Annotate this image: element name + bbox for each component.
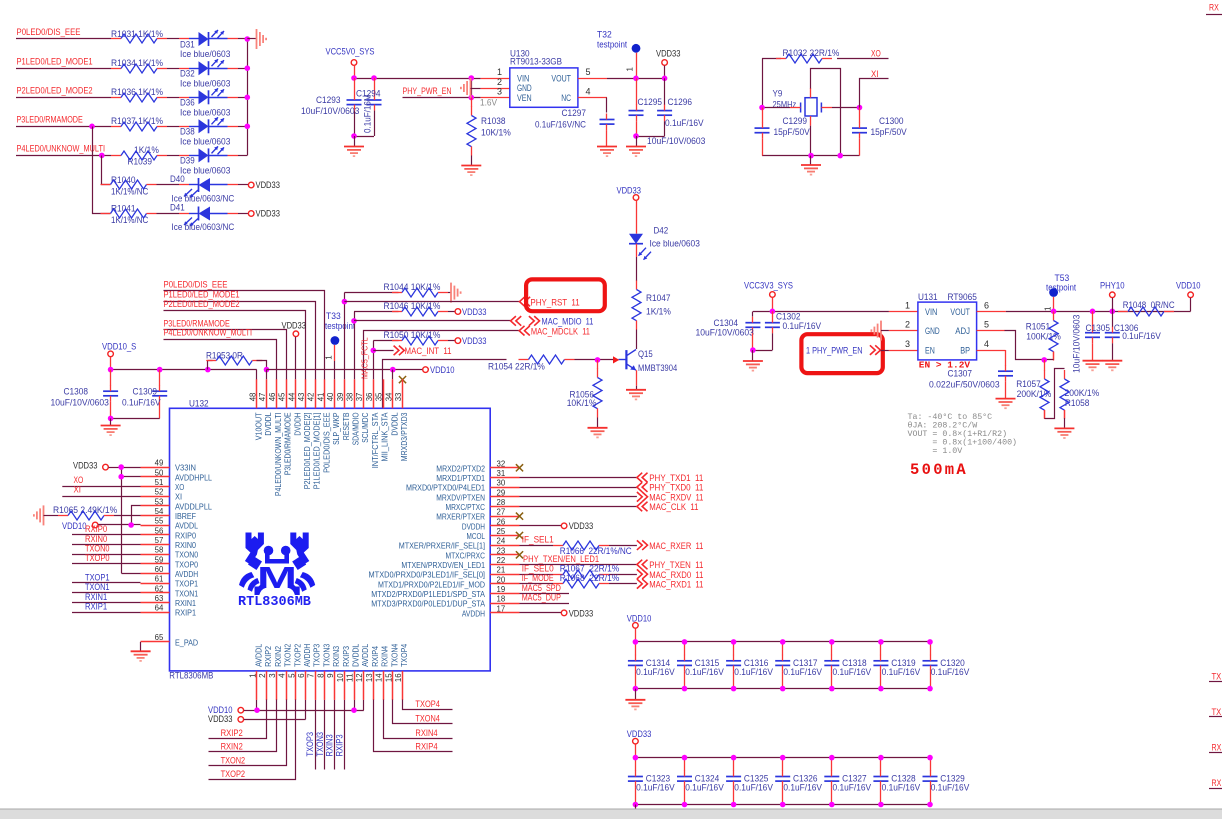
svg-text:1: 1 bbox=[1043, 306, 1052, 311]
wire E_PAD to ground bbox=[140, 642, 142, 651]
svg-text:RXIN2: RXIN2 bbox=[221, 742, 243, 752]
svg-text:TXON4: TXON4 bbox=[415, 714, 440, 724]
svg-text:RXIP4: RXIP4 bbox=[415, 742, 437, 752]
wire TXOP4 to pin 16 bbox=[403, 700, 453, 710]
net label PHY_PWR_EN bbox=[403, 86, 452, 96]
svg-text:VIN: VIN bbox=[925, 307, 937, 317]
wire P4LED0 to R1040 bbox=[102, 156, 111, 185]
svg-text:RXIP3: RXIP3 bbox=[341, 646, 351, 667]
svg-text:AVDDH: AVDDH bbox=[175, 569, 198, 579]
wire VDD33 bank bottom rail bbox=[635, 804, 930, 806]
resistor R1058 200K/1% bbox=[1060, 370, 1099, 419]
junction C1325 bottom bbox=[731, 802, 737, 808]
svg-text:P2LED0/LED_MODE2: P2LED0/LED_MODE2 bbox=[164, 299, 240, 309]
svg-text:49: 49 bbox=[155, 459, 164, 468]
svg-text:DVDDH: DVDDH bbox=[462, 521, 485, 531]
wire pin21 to R1067 bbox=[520, 574, 554, 576]
svg-text:ADJ: ADJ bbox=[955, 326, 970, 336]
junction RESETB bbox=[342, 299, 348, 305]
wire P4LED0/UNKNOW_MULTI to pin 46 bbox=[164, 340, 277, 380]
power VDD10 at pin 55 bbox=[62, 521, 131, 531]
wire RESETB up bbox=[344, 293, 346, 380]
svg-text:D38: D38 bbox=[180, 127, 195, 137]
junction C1326 top bbox=[780, 755, 786, 761]
svg-text:TXOP3: TXOP3 bbox=[312, 644, 322, 667]
svg-text:RXIP1: RXIP1 bbox=[85, 601, 107, 611]
svg-text:5: 5 bbox=[287, 673, 296, 678]
wire pin28 MAC_CLK bbox=[520, 506, 637, 508]
ground under C1306 bbox=[1102, 361, 1122, 371]
svg-text:MAC5_DUP: MAC5_DUP bbox=[522, 593, 561, 603]
net label RX right 2 bbox=[1209, 778, 1222, 789]
svg-text:VDD10: VDD10 bbox=[430, 365, 455, 375]
wire P3LED0/RMAMODE to R1037 bbox=[16, 126, 111, 128]
wire INT/FCTRL up bbox=[373, 341, 375, 380]
svg-text:VDD33: VDD33 bbox=[569, 521, 594, 531]
svg-text:SDA/MDIO: SDA/MDIO bbox=[351, 412, 361, 445]
wire pin22 PHY_TXEN bbox=[520, 564, 637, 566]
svg-text:XI: XI bbox=[871, 69, 879, 79]
net label IF_MODE bbox=[522, 573, 554, 583]
capacitor C1295 bbox=[629, 78, 706, 146]
net label RXIP3 bbox=[334, 734, 344, 756]
wire pin19 MAC5_SPD bbox=[520, 593, 570, 595]
capacitor C1315 0.1uF/16V bbox=[677, 642, 724, 689]
power VDD33 at R1050 bbox=[455, 336, 486, 346]
svg-text:D36: D36 bbox=[180, 98, 195, 108]
svg-text:0.1uF/16V: 0.1uF/16V bbox=[1122, 331, 1161, 341]
svg-text:MRXD1/PTXD1: MRXD1/PTXD1 bbox=[436, 473, 485, 483]
wire VIN rail to VEN bbox=[471, 78, 473, 98]
svg-text:MRXDV/PTXEN: MRXDV/PTXEN bbox=[436, 492, 485, 502]
svg-text:MAC_RXD1 11: MAC_RXD1 11 bbox=[649, 579, 703, 589]
port PHY_TXEN 11 bbox=[637, 560, 704, 570]
svg-text:5: 5 bbox=[984, 320, 989, 330]
svg-text:57: 57 bbox=[155, 536, 164, 545]
svg-text:P1LED0/LED_MODE1: P1LED0/LED_MODE1 bbox=[17, 56, 93, 66]
ground U130 GND pin (rotated) bbox=[461, 78, 471, 98]
svg-text:C1307: C1307 bbox=[948, 368, 973, 378]
svg-text:0.1uF/16V/NC: 0.1uF/16V/NC bbox=[535, 119, 586, 129]
power VDD33 at U130 out bbox=[656, 49, 681, 79]
wire C1308 ground stub bbox=[110, 418, 112, 425]
svg-text:RT9013-33GB: RT9013-33GB bbox=[510, 57, 562, 67]
svg-text:TXOP4: TXOP4 bbox=[399, 644, 409, 667]
junction T53/R1051 bbox=[1051, 309, 1057, 315]
svg-text:C1308: C1308 bbox=[64, 387, 89, 397]
svg-text:7: 7 bbox=[307, 673, 316, 678]
capacitor C1317 0.1uF/16V bbox=[775, 642, 822, 689]
power VDD10 at rail end bbox=[423, 365, 455, 375]
svg-text:0.1uF/16V: 0.1uF/16V bbox=[636, 783, 675, 793]
svg-text:MAC_RXDV 11: MAC_RXDV 11 bbox=[649, 492, 703, 502]
svg-text:4: 4 bbox=[984, 339, 989, 349]
svg-text:R1044 10K/1%: R1044 10K/1% bbox=[384, 282, 441, 292]
svg-text:VDD10: VDD10 bbox=[62, 521, 87, 531]
svg-text:10uF/10V/0603: 10uF/10V/0603 bbox=[51, 397, 109, 407]
wire VDD10_S rail bbox=[111, 370, 257, 380]
capacitor C1314 0.1uF/16V bbox=[628, 642, 675, 689]
svg-text:AVDDL: AVDDL bbox=[175, 521, 198, 531]
svg-text:TX: TX bbox=[1212, 672, 1222, 682]
wire U131 GND bbox=[881, 330, 918, 332]
svg-text:R1057: R1057 bbox=[1016, 379, 1041, 389]
resistor R1054 22R/1% bbox=[488, 355, 575, 371]
svg-text:VIN: VIN bbox=[517, 73, 529, 83]
power VDD33 at pin 17 bbox=[561, 608, 593, 618]
svg-text:Ice blue/0603/NC: Ice blue/0603/NC bbox=[172, 222, 235, 232]
svg-text:AVDDHPLL: AVDDHPLL bbox=[175, 472, 212, 482]
junction crystal gnd 2 bbox=[837, 153, 843, 159]
svg-text:TXON4: TXON4 bbox=[389, 644, 399, 667]
svg-text:θJA: 208.2°C/W: θJA: 208.2°C/W bbox=[908, 421, 978, 431]
resistor R1031 1K/1% bbox=[111, 29, 167, 43]
svg-text:53: 53 bbox=[155, 497, 164, 506]
junction C1320 top bbox=[927, 639, 933, 645]
wire RESETB to PHY_RST bbox=[344, 301, 519, 303]
svg-text:testpoint: testpoint bbox=[597, 39, 628, 49]
junction C1318 top bbox=[829, 639, 835, 645]
svg-text:VCC3V3_SYS: VCC3V3_SYS bbox=[744, 280, 793, 290]
junction C1316 bottom bbox=[731, 686, 737, 692]
wire TXON1 bbox=[72, 592, 141, 594]
svg-text:C1299: C1299 bbox=[783, 116, 808, 126]
svg-text:RXIN4: RXIN4 bbox=[380, 646, 390, 667]
junction C1319 top bbox=[878, 639, 884, 645]
chip U132 right pins 32-17 bbox=[369, 459, 520, 618]
wire crystal ground rail bbox=[762, 155, 860, 157]
highlight box PHY_RST bbox=[526, 279, 605, 311]
net label P4LED0/UNKNOW_MULTI bbox=[17, 144, 106, 154]
svg-text:M: M bbox=[257, 560, 297, 595]
wire P0LED0/DIS_EEE to R1031 bbox=[16, 38, 111, 40]
svg-text:0.1uF/16V: 0.1uF/16V bbox=[882, 783, 921, 793]
wire VCC3V3 rail bbox=[753, 311, 918, 313]
power VDD10 bottom left bbox=[208, 705, 257, 715]
svg-text:RXIP2: RXIP2 bbox=[263, 646, 273, 667]
capacitor C1304 10uF/10V/0603 bbox=[696, 312, 761, 351]
svg-text:1: 1 bbox=[626, 67, 635, 72]
wire TXON0 bbox=[72, 554, 141, 556]
wire VOUT to VDD33 node bbox=[578, 78, 665, 80]
no-connect pin 25 bbox=[516, 532, 523, 539]
svg-text:EN: EN bbox=[925, 346, 935, 356]
wire RXIP3 pin 10 bbox=[344, 700, 346, 770]
svg-text:500mA: 500mA bbox=[910, 461, 968, 479]
svg-text:13: 13 bbox=[365, 673, 374, 682]
wire P1LED0/LED_MODE1 to R1034 bbox=[16, 68, 111, 70]
junction node P4LED0 bbox=[99, 153, 105, 159]
junction VCC5V0 at C1293 bbox=[351, 75, 357, 81]
svg-text:37: 37 bbox=[355, 392, 364, 401]
svg-text:XI: XI bbox=[74, 484, 82, 494]
ground under C1305 bbox=[1083, 361, 1103, 371]
svg-text:42: 42 bbox=[307, 392, 316, 401]
ground under C1295 bbox=[626, 147, 646, 157]
junction crystal left bbox=[759, 105, 765, 111]
svg-text:41: 41 bbox=[316, 392, 325, 401]
net label MAC5_SPD bbox=[522, 583, 562, 593]
ground under C1307 bbox=[996, 399, 1016, 409]
resistor R1036 1K/1% bbox=[111, 87, 167, 102]
net label TXOP0 bbox=[85, 553, 110, 563]
svg-text:RXIN3: RXIN3 bbox=[325, 734, 335, 756]
wire RXIP1 bbox=[72, 612, 141, 614]
wire RXIP2 to pin 2 bbox=[209, 700, 267, 739]
wire RXIN1 bbox=[72, 602, 141, 604]
capacitor C1305 10uF/10V/0603 bbox=[1072, 311, 1111, 373]
svg-text:P3LED0/RMAMODE: P3LED0/RMAMODE bbox=[17, 115, 83, 125]
svg-text:IBREF: IBREF bbox=[175, 511, 196, 521]
ground under R1038 bbox=[461, 166, 481, 176]
svg-text:1: 1 bbox=[249, 673, 258, 678]
wire SCL/MDC to port bbox=[364, 331, 520, 380]
power VDD33 at D42 bbox=[617, 185, 642, 233]
port MAC_RXDV 11 bbox=[637, 492, 704, 502]
svg-text:VDD33: VDD33 bbox=[256, 180, 281, 190]
net label RXIN0 bbox=[85, 534, 107, 544]
svg-text:IF_SEL1: IF_SEL1 bbox=[522, 535, 554, 545]
svg-text:1K/1%: 1K/1% bbox=[646, 307, 671, 317]
junction VEN node top bbox=[469, 75, 475, 81]
svg-text:TXOP3: TXOP3 bbox=[305, 732, 315, 757]
svg-text:TXON2: TXON2 bbox=[283, 644, 293, 667]
svg-text:35: 35 bbox=[375, 392, 384, 401]
svg-text:TXOP1: TXOP1 bbox=[85, 572, 110, 582]
net label RXIP1 bbox=[85, 601, 107, 611]
wire rail to pin47 bbox=[266, 370, 268, 380]
capacitor C1296 bbox=[636, 78, 704, 136]
junction Q15 base node bbox=[595, 357, 601, 363]
wire R1037 to D38 bbox=[167, 126, 179, 128]
no-connect pin 27 bbox=[516, 513, 523, 520]
svg-text:VDD33: VDD33 bbox=[256, 209, 281, 219]
capacitor C1302 0.1uF/16V bbox=[753, 311, 821, 350]
svg-text:GND: GND bbox=[517, 83, 532, 93]
svg-text:TXON3: TXON3 bbox=[321, 644, 331, 667]
wire R1034 to D32 bbox=[167, 68, 179, 70]
svg-text:55: 55 bbox=[155, 517, 164, 526]
wire SDA/MDIO up bbox=[354, 312, 356, 380]
wire R1036 to D36 bbox=[167, 97, 179, 99]
net label P1LED0/LED_MODE1 bbox=[17, 56, 93, 66]
wire D39 cathode to rail bbox=[238, 155, 247, 157]
chip U132 bottom pins 1-16 bbox=[249, 644, 410, 700]
wire P0LED0/DIS_EEE to pin 41 bbox=[164, 291, 325, 380]
testpoint T53 bbox=[1043, 273, 1076, 311]
svg-text:48: 48 bbox=[249, 392, 258, 401]
label thermal note bbox=[908, 413, 1018, 456]
junction SDA/MDIO bbox=[351, 318, 357, 324]
wire VDD10 bank bottom rail bbox=[635, 688, 930, 690]
junction node P3LED0 bbox=[89, 124, 95, 130]
svg-text:NC: NC bbox=[561, 93, 571, 103]
svg-text:P4LED0/UNKNOW_MULTI: P4LED0/UNKNOW_MULTI bbox=[164, 328, 253, 338]
ground VDD10 capbank bbox=[625, 700, 645, 710]
svg-text:VDD33: VDD33 bbox=[569, 608, 594, 618]
net label RXIN3 bbox=[325, 734, 335, 756]
svg-text:Ice blue/0603: Ice blue/0603 bbox=[180, 137, 230, 147]
junction C1293 bottom bbox=[351, 133, 357, 139]
wire TXON3 pin 8 bbox=[324, 700, 326, 770]
wire XI bbox=[860, 79, 889, 108]
svg-text:12: 12 bbox=[355, 673, 364, 682]
svg-text:46: 46 bbox=[268, 392, 277, 401]
capacitor C1319 0.1uF/16V bbox=[873, 642, 920, 689]
junction C1320 bottom bbox=[927, 686, 933, 692]
svg-text:MAC_RXER 11: MAC_RXER 11 bbox=[649, 541, 703, 551]
port MAC_MDIO 11 bbox=[511, 316, 594, 326]
wire P2LED0/LED_MODE2 to R1036 bbox=[16, 97, 111, 99]
svg-text:DVDDH: DVDDH bbox=[292, 413, 302, 436]
net label TXOP3 bbox=[305, 732, 315, 757]
regulator U131 RT9065 bbox=[905, 292, 989, 360]
svg-text:RXIP3: RXIP3 bbox=[334, 734, 344, 756]
net label P1LED0/LED_MODE1 at chip bbox=[164, 290, 240, 300]
resistor R1065 2.49K/1% bbox=[44, 505, 141, 520]
svg-text:AVDDH: AVDDH bbox=[302, 644, 312, 667]
svg-text:0.1uF/16V: 0.1uF/16V bbox=[783, 321, 822, 331]
net label TXON2 bbox=[221, 755, 246, 765]
svg-text:3: 3 bbox=[497, 87, 502, 97]
wire TXON4 to pin 15 bbox=[393, 700, 453, 724]
capacitor C1307 0.022uF/50V/0603 bbox=[929, 350, 1013, 398]
port PHY_RST 11 bbox=[520, 297, 580, 308]
ground crystal bbox=[801, 165, 821, 175]
svg-text:4: 4 bbox=[586, 87, 591, 97]
junction MAC_INT bbox=[371, 348, 377, 354]
svg-text:TXOP0: TXOP0 bbox=[85, 553, 110, 563]
svg-text:0.1uF/16V: 0.1uF/16V bbox=[734, 667, 773, 677]
resistor R1044 10K/1% bbox=[344, 282, 450, 297]
svg-text:PHY_PWR_EN: PHY_PWR_EN bbox=[403, 86, 452, 96]
svg-text:RXIP0: RXIP0 bbox=[85, 524, 107, 534]
svg-text:Q15: Q15 bbox=[638, 349, 653, 359]
svg-text:D32: D32 bbox=[180, 69, 195, 79]
svg-text:TXON2: TXON2 bbox=[221, 755, 246, 765]
wire MAC_INT bbox=[373, 350, 393, 352]
wire D41 to VDD33 bbox=[238, 213, 248, 215]
net label TX right 1 bbox=[1209, 672, 1222, 682]
resistor R1047 1K/1% bbox=[632, 281, 671, 330]
svg-text:10uF/10V/0603: 10uF/10V/0603 bbox=[647, 136, 705, 146]
ground under C1293 bbox=[344, 147, 364, 157]
svg-text:MTXD3/PRXD0/P0LED1/DUP_STA: MTXD3/PRXD0/P0LED1/DUP_STA bbox=[371, 599, 485, 609]
wire MDIO to port bbox=[354, 320, 511, 322]
crystal Y9 25MHz bbox=[762, 88, 860, 126]
svg-text:V33IN: V33IN bbox=[175, 463, 196, 473]
svg-text:62: 62 bbox=[155, 584, 164, 593]
svg-text:MRXD2/PTXD2: MRXD2/PTXD2 bbox=[436, 463, 485, 473]
svg-text:DVDDL: DVDDL bbox=[263, 412, 273, 435]
junction crystal right bbox=[857, 105, 863, 111]
wire R1066 to MAC_RXER bbox=[609, 545, 637, 547]
svg-text:Ice blue/0603: Ice blue/0603 bbox=[180, 49, 230, 59]
wire P4LED0/UNKNOW_MULTI to R1039 bbox=[16, 155, 111, 157]
junction VEN node bbox=[469, 95, 475, 101]
svg-text:24: 24 bbox=[497, 537, 506, 546]
ground LED rail (rotated) bbox=[257, 29, 267, 49]
wire TXOP0 bbox=[72, 563, 141, 565]
net label XI left bbox=[74, 484, 82, 494]
svg-text:0.1uF/16V: 0.1uF/16V bbox=[783, 667, 822, 677]
LED D40 Ice blue/0603/NC bbox=[170, 174, 238, 204]
capacitor C1320 0.1uF/16V bbox=[923, 642, 970, 689]
wire D32 cathode to rail bbox=[238, 68, 247, 70]
svg-text:0.1uF/16V: 0.1uF/16V bbox=[122, 397, 161, 407]
svg-text:MAC_INT 11: MAC_INT 11 bbox=[405, 346, 452, 356]
junction C1324 top bbox=[682, 755, 688, 761]
junction C1327 bottom bbox=[829, 802, 835, 808]
wire MII_LINK_STA to R1054 bbox=[383, 360, 507, 409]
svg-text:VDD10_S: VDD10_S bbox=[102, 341, 136, 351]
junction C1319 bottom bbox=[878, 686, 884, 692]
junction R1053 left bbox=[205, 367, 211, 373]
svg-text:R1053 0R: R1053 0R bbox=[206, 350, 243, 360]
wire pin29 MAC_RXDV bbox=[520, 496, 637, 498]
net label TXON0 bbox=[85, 543, 110, 553]
junction crystal gnd 1 bbox=[808, 153, 814, 159]
LED D36 Ice blue/0603 bbox=[179, 88, 238, 117]
svg-text:50: 50 bbox=[155, 468, 164, 477]
label EN > 1.2V bbox=[919, 360, 971, 371]
regulator U130 RT9013-33GB bbox=[497, 48, 591, 107]
svg-text:VDD33: VDD33 bbox=[627, 729, 652, 739]
svg-text:16: 16 bbox=[394, 673, 403, 682]
resistor R1056 10K/1% bbox=[567, 360, 602, 418]
svg-text:TXOP2: TXOP2 bbox=[221, 769, 246, 779]
svg-text:P1LED0/LED_MODE[1]: P1LED0/LED_MODE[1] bbox=[312, 413, 322, 490]
junction VOUT C1305 bbox=[1090, 309, 1096, 315]
junction C1325 top bbox=[731, 755, 737, 761]
junction C1315 top bbox=[682, 639, 688, 645]
svg-text:XO: XO bbox=[74, 475, 84, 485]
svg-text:60: 60 bbox=[155, 565, 164, 574]
svg-text:0.1uF/16V: 0.1uF/16V bbox=[665, 118, 704, 128]
wire R1054 to Q15 base bbox=[575, 359, 614, 361]
wire rail to pin34 bbox=[392, 370, 394, 380]
wire crystal case top loop bbox=[811, 69, 841, 156]
svg-text:RXIN1: RXIN1 bbox=[175, 598, 196, 608]
junction VOUT C1306 PHY10 bbox=[1110, 309, 1116, 315]
svg-text:P3LED0/RMAMODE: P3LED0/RMAMODE bbox=[283, 412, 293, 475]
wire RXIN3 pin 9 bbox=[334, 700, 336, 770]
svg-text:DVDDL: DVDDL bbox=[351, 644, 361, 667]
net label MAC5_FCTL bbox=[360, 337, 370, 379]
svg-text:XO: XO bbox=[871, 48, 881, 58]
capacitor C1297 0.1uF/16V/NC bbox=[535, 108, 615, 146]
svg-text:V10OUT: V10OUT bbox=[254, 413, 264, 441]
power VDD33 bottom left bbox=[208, 700, 306, 724]
power VDD33 at pin 44 bbox=[282, 320, 307, 379]
junction rail row 4 bbox=[245, 124, 251, 130]
svg-text:0.1uF/16V: 0.1uF/16V bbox=[833, 783, 872, 793]
svg-text:T32: T32 bbox=[597, 29, 612, 39]
junction VDD10 pin1 bbox=[254, 707, 260, 713]
chip U132 left pins 49-64 bbox=[141, 459, 213, 618]
ground Q15 bbox=[626, 390, 646, 400]
net label RX right 1 bbox=[1209, 742, 1222, 752]
svg-text:P0LED0/DIS_EEE: P0LED0/DIS_EEE bbox=[321, 412, 331, 473]
capacitor C1328 0.1uF/16V bbox=[873, 758, 920, 805]
svg-text:20: 20 bbox=[497, 575, 506, 584]
svg-text:P4LED0/UNKNOW_MULTI: P4LED0/UNKNOW_MULTI bbox=[17, 144, 106, 154]
svg-text:51: 51 bbox=[155, 478, 164, 487]
wire R1057 to R1058 bbox=[1045, 369, 1065, 419]
svg-text:SLP_WKP: SLP_WKP bbox=[331, 412, 341, 445]
svg-text:P0LED0/DIS_EEE: P0LED0/DIS_EEE bbox=[17, 27, 81, 37]
svg-text:RXIN2: RXIN2 bbox=[273, 646, 283, 667]
